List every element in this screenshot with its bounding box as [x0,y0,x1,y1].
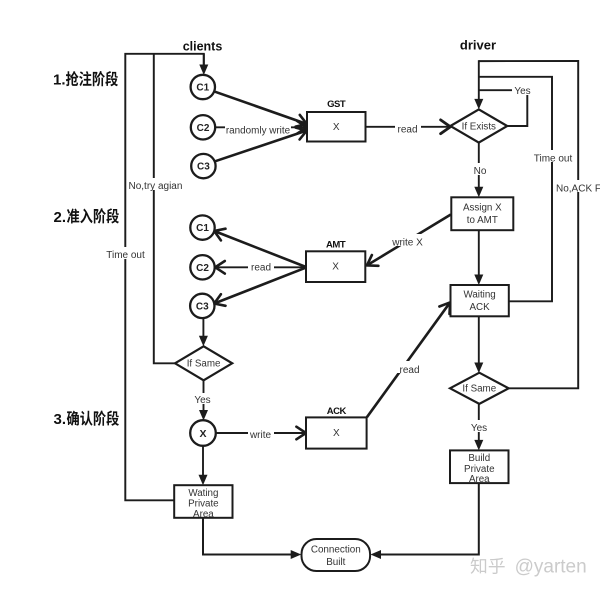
box Waiting ACK [451,285,509,316]
svg-text:X: X [333,428,340,439]
wire Yes loop (If Exists right vertex up to driver line) [479,90,528,126]
wire Waiting ACK to If Same right with arrow [474,316,483,373]
label No try agian [128,178,185,192]
label Time out right [532,150,574,164]
node circle C2 phase1 [191,115,215,139]
label AMT [326,240,346,251]
svg-text:If Same: If Same [187,359,221,370]
label read left [248,259,274,274]
box Build Private Area [450,450,509,485]
svg-text:C2: C2 [197,123,210,134]
wire C3 to GST box with barb arrow [214,128,307,162]
svg-text:C2: C2 [196,263,209,274]
svg-text:to AMT: to AMT [467,215,498,226]
svg-text:Waiting: Waiting [463,290,495,301]
wire C2 to GST box (randomly write) with barb arrow [215,121,307,134]
svg-text:Connection: Connection [311,544,361,555]
svg-text:read: read [399,365,419,376]
svg-text:read: read [397,125,417,136]
svg-text:Assign X: Assign X [463,202,502,213]
svg-text:Build: Build [468,453,490,464]
wire Assign to Waiting ACK with arrow [474,230,483,285]
box ACK with X [306,417,367,448]
wire Build Private Area to Connection Built with arrow [371,483,479,559]
svg-text:read: read [251,263,271,274]
svg-text:C1: C1 [196,223,209,234]
svg-text:1.: 1. [53,72,66,89]
svg-text:Yes: Yes [471,423,487,434]
box AMT with X [306,251,365,282]
wire AMT to C1 phase2 with barb arrow [214,229,306,267]
wire Time out feedback (Waiting ACK right to driver line) [479,77,552,301]
terminal Connection Built [302,539,371,571]
svg-text:Area: Area [469,474,490,485]
svg-text:X: X [333,122,340,133]
wire left feedback Time out (If Same left vertex to clients top) [154,54,175,364]
svg-text:If Exists: If Exists [462,122,496,133]
label GST [327,99,346,110]
label write X [390,234,426,249]
wire Assign X diagonal to AMT (write X) with barb arrow [367,215,451,266]
wire clients to C1 with arrow [199,54,208,75]
label Yes right [468,420,490,434]
decision If Same left [175,346,232,380]
wire No-ACK-Fail feedback (If Same right vertex up to driver line) [479,61,578,388]
svg-text:Wating: Wating [188,488,218,499]
label read diagonal [397,361,423,376]
svg-text:3.: 3. [54,411,67,428]
svg-text:randomly write: randomly write [226,125,291,136]
node circle C3 phase1 [191,154,215,178]
svg-text:Time out: Time out [106,250,145,261]
label Yes left [193,393,215,406]
svg-text:No,ACK Fail: No,ACK Fail [556,184,600,195]
decision If Exists [450,109,507,142]
wire X node down to Wating Private Area with arrow [199,446,208,485]
wire If Same Yes down to Build Private Area with arrow [474,404,483,451]
svg-text:ACK: ACK [470,302,491,313]
svg-text:GST: GST [327,99,346,110]
node circle X [190,420,216,446]
label No ACK Fail [554,180,600,195]
svg-text:No,try agian: No,try agian [129,181,183,192]
label Yes top right [512,84,534,97]
label phase 2 heading [54,208,119,226]
wire Wating Private Area to Connection Built with arrow [203,518,301,559]
svg-text:No: No [474,166,487,177]
node circle C2 phase2 [190,255,214,279]
wire If Same left Yes down to X node with arrow [199,380,208,420]
box Assign X to AMT [451,197,513,230]
svg-text:X: X [199,428,206,440]
svg-text:clients: clients [183,39,223,53]
wire left feedback No-try-again (Wating Private Area to clients top) [125,54,204,501]
svg-text:Built: Built [326,557,345,568]
node circle C1 phase1 [191,75,215,99]
label phase 3 heading [54,411,119,429]
box Wating Private Area [174,485,232,520]
label phase 1 heading [53,71,118,88]
svg-text:X: X [332,262,339,273]
label No [469,163,491,177]
wire ACK diagonal to Waiting ACK (read) with barb arrow [367,302,450,417]
label driver [460,38,496,53]
svg-text:Yes: Yes [514,86,530,97]
svg-text:Time out: Time out [534,153,573,164]
svg-text:driver: driver [460,38,496,53]
label write [248,427,274,441]
watermark zhihu yarten [471,557,587,578]
svg-text:ACK: ACK [327,406,347,417]
svg-text:Area: Area [193,509,214,520]
svg-text:write: write [249,430,272,441]
wire AMT to C3 phase2 with barb arrow [214,268,306,306]
wire If Exists No down to Assign box with arrow [474,143,483,198]
svg-text:2.: 2. [54,209,67,226]
svg-text:C3: C3 [197,162,210,173]
svg-text:@yarten: @yarten [515,557,587,578]
svg-text:C1: C1 [196,83,209,94]
label Time out left [105,247,147,261]
wire C1 to GST box with barb arrow [214,91,307,127]
decision If Same right [450,373,509,404]
label clients [183,39,223,53]
wire AMT to C2 phase2 (read) with barb arrow [215,261,306,274]
wire driver down to If Exists with arrow [474,60,483,109]
wire C3 down to If Same left with arrow [199,318,208,346]
wire X node to ACK box (write) with barb arrow [216,427,306,440]
svg-text:Yes: Yes [194,395,210,406]
label randomly write [225,121,291,136]
label ACK [327,406,347,417]
svg-text:AMT: AMT [326,240,346,251]
svg-text:C3: C3 [196,302,209,313]
svg-text:If Same: If Same [462,384,496,395]
node circle C3 phase2 [190,294,214,318]
node circle C1 phase2 [190,215,214,239]
label read top [395,121,421,136]
wire GST to If Exists (read) with barb arrow [366,120,451,134]
box GST with X [307,112,366,142]
svg-text:write X: write X [391,238,423,249]
